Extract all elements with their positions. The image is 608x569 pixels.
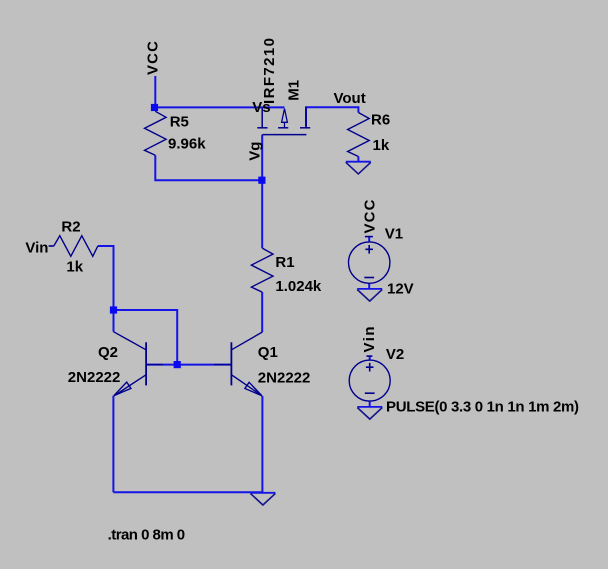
svg-text:.tran 0 8m 0: .tran 0 8m 0 xyxy=(108,527,186,544)
wire Q1 emitter down xyxy=(261,396,263,492)
transistor M1 channel bar drain xyxy=(300,127,310,129)
wire R2 right lead down to node xyxy=(98,246,114,310)
svg-text:9.96k: 9.96k xyxy=(168,136,206,153)
wire node down to Q2 collector xyxy=(113,310,115,332)
wire M1 drain to Vout to R6 xyxy=(306,107,358,126)
wire M1 gate down to Vg node xyxy=(261,135,263,181)
svg-text:R6: R6 xyxy=(371,111,390,128)
wire R1 bottom to Q1 collector xyxy=(261,292,263,332)
ground bottom rail xyxy=(250,493,275,505)
transistor M1 source stub xyxy=(261,107,263,127)
svg-text:V1: V1 xyxy=(385,225,403,242)
wire Vg node down to R1 top xyxy=(261,180,263,248)
svg-text:1k: 1k xyxy=(373,137,390,154)
svg-text:VCC: VCC xyxy=(145,41,162,75)
resistor R2 body xyxy=(54,236,98,257)
svg-text:VCC: VCC xyxy=(362,199,379,233)
ground under R6 xyxy=(346,162,371,174)
wire node to Q1 base column xyxy=(114,310,178,365)
ground under V1 xyxy=(357,289,382,301)
resistor R5 body xyxy=(145,111,167,155)
resistor R2 label anchor dash xyxy=(49,245,54,247)
transistor Q1 base lead xyxy=(214,364,231,366)
transistor Q2 collector diagonal xyxy=(114,332,147,350)
svg-text:Q1: Q1 xyxy=(258,344,278,361)
svg-text:1.024k: 1.024k xyxy=(275,278,322,295)
voltage source V1 plus xyxy=(365,245,373,254)
svg-text:R5: R5 xyxy=(170,113,189,130)
wire R6 bottom lead to ground xyxy=(357,157,359,163)
wire Q2 base to Q1 base xyxy=(146,364,231,366)
voltage source V1 minus xyxy=(364,277,374,279)
voltage source V2 circle xyxy=(349,360,390,401)
voltage source V1 circle xyxy=(349,242,390,283)
transistor M1 bulk arrow xyxy=(282,109,288,128)
voltage source V2 minus xyxy=(365,392,375,394)
svg-text:R1: R1 xyxy=(275,254,294,271)
wire R5 bottom lead xyxy=(155,155,262,180)
svg-text:IRF7210: IRF7210 xyxy=(261,38,278,104)
wire V2 top stub xyxy=(369,356,371,360)
svg-text:Vin: Vin xyxy=(361,327,378,353)
transistor M1 channel bar source xyxy=(257,127,267,129)
wire V1 bottom stub xyxy=(368,283,370,289)
svg-text:R2: R2 xyxy=(61,219,80,236)
svg-text:Vin: Vin xyxy=(25,240,48,257)
transistor Q2 emitter diagonal xyxy=(114,375,146,396)
svg-text:PULSE(0 3.3 0 1n 1n 1m 2m): PULSE(0 3.3 0 1n 1n 1m 2m) xyxy=(386,398,579,415)
svg-text:Q2: Q2 xyxy=(98,344,118,361)
wire V1 top stub xyxy=(368,237,370,242)
svg-text:V2: V2 xyxy=(386,346,404,363)
wire bottom rail to ground xyxy=(113,491,263,493)
svg-text:Vs: Vs xyxy=(252,99,270,116)
resistor R1 body xyxy=(251,248,273,292)
voltage source V2 label anchor dash xyxy=(366,355,372,357)
transistor Q1 emitter arrow xyxy=(245,382,262,395)
transistor Q2 base bar xyxy=(145,342,147,385)
svg-text:2N2222: 2N2222 xyxy=(258,369,311,386)
ground under V2 xyxy=(357,407,382,419)
transistor Q1 collector diagonal xyxy=(232,332,263,350)
wire top rail node to M1 source xyxy=(155,106,285,108)
wire Q2 emitter down xyxy=(112,396,114,493)
wire VCC stub to R5 top node xyxy=(154,76,156,107)
transistor M1 gate plate xyxy=(262,134,306,136)
resistor R6 body xyxy=(348,113,370,157)
svg-text:Vg: Vg xyxy=(247,142,264,161)
voltage source V1 label anchor dash xyxy=(365,236,373,238)
transistor Q1 base bar xyxy=(230,342,232,385)
svg-text:M1: M1 xyxy=(286,80,303,101)
svg-text:12V: 12V xyxy=(387,280,414,297)
svg-text:1k: 1k xyxy=(66,258,83,275)
transistor M1 channel bar middle xyxy=(278,127,288,129)
transistor M1 drain stub xyxy=(305,107,307,127)
node junction R2 / Q2 collector xyxy=(110,306,117,313)
transistor Q1 emitter diagonal xyxy=(232,375,263,396)
transistor Q2 base lead xyxy=(146,364,163,366)
voltage source V2 plus xyxy=(366,363,374,372)
node junction R5 top / VCC xyxy=(151,104,158,111)
wire V2 bottom stub xyxy=(369,401,371,407)
svg-text:2N2222: 2N2222 xyxy=(68,369,121,386)
node junction Vg xyxy=(258,177,265,184)
svg-text:Vout: Vout xyxy=(334,90,366,107)
transistor Q2 emitter arrow xyxy=(114,382,131,396)
node junction Q1-Q2 bases xyxy=(174,361,181,368)
